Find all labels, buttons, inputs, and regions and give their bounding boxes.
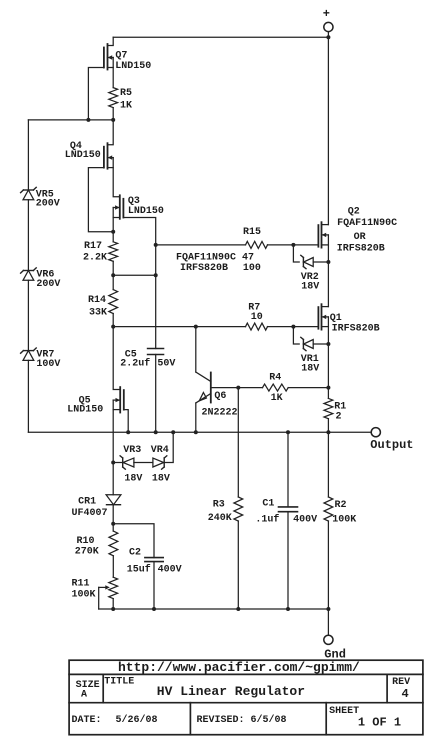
wire CR1 cathode [112, 505, 114, 524]
wire R7 to Q1 gate [268, 326, 319, 328]
wire Q2 drain [322, 224, 329, 226]
wire R7 left [113, 326, 245, 328]
svg-text:IRFS820B: IRFS820B [337, 244, 385, 255]
junction C1 bottom [286, 607, 290, 611]
wire Q7 drain [108, 37, 114, 45]
junction Q6 collector tap [194, 325, 198, 329]
svg-text:2: 2 [336, 411, 342, 422]
wire Q3 gate [123, 218, 155, 245]
wire C2 bottom [153, 562, 155, 609]
svg-text:REVISED: 6/5/08: REVISED: 6/5/08 [197, 714, 287, 726]
resistor R2 [324, 432, 356, 609]
wire Q1 drain [322, 306, 329, 308]
wire right rail to Q2 drain [327, 37, 329, 224]
wire VR4 right up to output rail [164, 432, 173, 462]
svg-text:4: 4 [402, 687, 409, 701]
zener diode VR4 [151, 445, 170, 485]
capacitor C1 [255, 499, 317, 526]
wire R4 right [288, 387, 328, 389]
wire VR5 to VR6 [27, 200, 29, 271]
junction VR3 anode node [111, 461, 115, 465]
svg-text:10: 10 [251, 312, 263, 323]
svg-text:UF4007: UF4007 [72, 508, 108, 519]
svg-text:VR3: VR3 [123, 445, 141, 456]
transistor Q3 [113, 195, 164, 219]
wire Q4 drain [108, 120, 114, 145]
wire left rail upper [27, 120, 29, 190]
capacitor C5 [120, 349, 175, 370]
zener diode VR5 [21, 187, 60, 209]
junction C2 bottom [152, 607, 156, 611]
svg-text:2N2222: 2N2222 [202, 408, 238, 419]
svg-text:1K: 1K [120, 101, 132, 112]
svg-text:R2: R2 [335, 500, 347, 511]
junction CR1 / R10 / C2 [111, 522, 115, 526]
wire Q6 base [211, 387, 239, 389]
svg-text:240K: 240K [208, 513, 232, 524]
junction C5 bottom [154, 430, 158, 434]
junction R14 bottom [111, 325, 115, 329]
svg-text:A: A [81, 689, 87, 700]
wire Q6 collector [195, 327, 197, 372]
svg-text:18V: 18V [152, 474, 170, 485]
junction R2 bottom [326, 607, 330, 611]
resistor R10 [75, 524, 118, 558]
junction R11 bottom [111, 607, 115, 611]
svg-text:Q7: Q7 [115, 51, 127, 62]
+ terminal [323, 7, 333, 31]
transistor Q5 [67, 387, 124, 416]
junction R5 bottom [111, 118, 115, 122]
junction Q6 emitter [194, 430, 198, 434]
svg-text:R3: R3 [213, 500, 225, 511]
junction R3 bottom [236, 607, 240, 611]
svg-text:SHEET: SHEET [329, 706, 359, 717]
wire Q4 gate [88, 168, 113, 232]
junction VR4 top [171, 430, 175, 434]
wire upper left horizontal [28, 119, 113, 121]
svg-text:CR1: CR1 [78, 496, 96, 507]
Gnd terminal [324, 635, 346, 661]
svg-text:R10: R10 [77, 536, 95, 547]
resistor R3 [208, 497, 243, 609]
svg-text:Q2: Q2 [348, 206, 360, 217]
junction VR1 anode [326, 342, 330, 346]
diode CR1 [72, 495, 121, 519]
wire + terminal to node [327, 32, 329, 38]
svg-text:IRFS820B: IRFS820B [180, 263, 228, 274]
svg-text:VR4: VR4 [151, 445, 169, 456]
resistor R7 [246, 303, 268, 331]
svg-text:R11: R11 [72, 579, 90, 590]
wire R10 to R11 [112, 556, 114, 577]
zener diode VR2 [293, 245, 328, 293]
svg-text:LND150: LND150 [67, 405, 103, 416]
svg-text:R17: R17 [84, 241, 102, 252]
wire to C2 top [113, 524, 154, 558]
junction C5 node [154, 273, 158, 277]
svg-text:100K: 100K [72, 590, 96, 601]
svg-text:2.2K: 2.2K [83, 252, 107, 263]
wire Q3 source [112, 208, 114, 232]
svg-text:OR: OR [354, 232, 366, 243]
svg-text:18V: 18V [301, 364, 319, 375]
Output terminal [370, 428, 413, 452]
svg-text:200V: 200V [36, 199, 60, 210]
wire C1 top [287, 432, 289, 507]
wire R17 bottom to C5 node [113, 274, 156, 276]
transistor Q6 [196, 372, 238, 419]
wire R4 left [238, 387, 262, 389]
svg-text:TITLE: TITLE [104, 677, 134, 688]
svg-text:C2: C2 [129, 548, 141, 559]
zener diode VR7 [21, 348, 61, 370]
svg-text:HV Linear Regulator: HV Linear Regulator [157, 684, 305, 699]
wire to Gnd terminal [327, 609, 329, 635]
wire R5 bottom [112, 108, 114, 120]
resistor R5 [109, 88, 132, 112]
svg-text:R14: R14 [88, 295, 106, 306]
wire Q1 source [327, 317, 329, 388]
svg-text:R4: R4 [269, 373, 281, 384]
svg-text:100K: 100K [332, 514, 356, 525]
svg-text:100: 100 [243, 263, 261, 274]
transistor Q7 [104, 44, 151, 72]
wire output rail [28, 431, 371, 433]
wire Q7 source to R5 [112, 58, 114, 88]
svg-text:18V: 18V [124, 474, 142, 485]
transistor Q1 [318, 304, 379, 334]
svg-text:200V: 200V [36, 279, 60, 290]
svg-text:Q6: Q6 [214, 391, 226, 402]
wire VR6 to VR7 [27, 280, 29, 350]
svg-text:1K: 1K [271, 393, 283, 404]
svg-text:Output: Output [370, 438, 413, 452]
junction R1 bottom / R2 top [326, 430, 330, 434]
zener diode VR6 [21, 268, 61, 290]
svg-text:SIZE: SIZE [76, 680, 100, 691]
wire R15 left [156, 244, 246, 246]
resistor R17 [83, 232, 118, 275]
svg-text:15uf: 15uf [127, 564, 151, 576]
svg-text:1 OF 1: 1 OF 1 [358, 715, 401, 729]
resistor R14 [88, 275, 118, 326]
wire R15 to Q2 gate [268, 244, 319, 246]
junction VR2 top [291, 243, 295, 247]
svg-text:.1uf: .1uf [255, 513, 279, 525]
svg-text:LND150: LND150 [128, 206, 164, 217]
title block frame [69, 660, 423, 735]
wire R3 column [237, 388, 239, 497]
svg-text:18V: 18V [301, 282, 319, 293]
svg-text:FQAF11N90C: FQAF11N90C [337, 218, 397, 229]
svg-text:LND150: LND150 [65, 150, 101, 161]
transistor Q2 [318, 206, 397, 254]
wire C5 bottom [155, 355, 157, 433]
wire Q5 source [112, 400, 114, 462]
wire Q4 source to Q3 drain [113, 158, 120, 197]
wire VR3 left [113, 462, 123, 464]
wire left rail lower [27, 360, 29, 432]
resistor R15 [243, 227, 268, 248]
svg-text:2.2uf: 2.2uf [120, 357, 150, 369]
wire Q5 drain [113, 327, 120, 390]
resistor R1 [324, 388, 346, 433]
zener diode VR1 [293, 327, 328, 375]
wire Q2 source [327, 235, 329, 307]
svg-text:R15: R15 [243, 227, 261, 238]
svg-text:R5: R5 [120, 88, 132, 99]
wire ground rail [99, 608, 329, 610]
junction C1 top [286, 430, 290, 434]
zener diode VR3 [120, 445, 142, 485]
junction Q5 gate on output rail [126, 430, 130, 434]
junction Q3 source / R17 top [111, 230, 115, 234]
junction R4 / R1 / Q1 source [326, 386, 330, 390]
resistor R4 [263, 373, 289, 404]
junction VR2 anode [326, 260, 330, 264]
svg-text:270K: 270K [75, 547, 99, 558]
wire Q7 gate [88, 68, 104, 120]
wire C1 bottom [287, 512, 289, 609]
svg-text:5/26/08: 5/26/08 [116, 714, 158, 726]
svg-text:LND150: LND150 [115, 61, 151, 72]
svg-text:+: + [323, 7, 330, 21]
junction VR1 top [291, 325, 295, 329]
junction Q3 gate / R15 wire [154, 243, 158, 247]
wire Q6 emitter [195, 403, 197, 432]
svg-text:FQAF11N90C 47: FQAF11N90C 47 [176, 252, 254, 263]
junction Q6 base / R4 node [236, 386, 240, 390]
wire top rail [113, 36, 328, 38]
svg-text:400V: 400V [158, 565, 182, 576]
svg-text:400V: 400V [293, 514, 317, 525]
wire C5 top [155, 245, 157, 349]
junction top right [326, 35, 330, 39]
svg-text:DATE:: DATE: [72, 715, 102, 726]
svg-text:C1: C1 [262, 499, 274, 510]
capacitor C2 [127, 548, 182, 576]
potentiometer R11 [72, 577, 118, 609]
transistor Q4 [65, 141, 114, 169]
wire VR3 to VR4 [134, 462, 153, 464]
wire CR1 anode [112, 463, 114, 495]
svg-text:http://www.pacifier.com/~gpimm: http://www.pacifier.com/~gpimm/ [118, 660, 360, 675]
svg-text:50V: 50V [157, 358, 175, 369]
svg-text:100V: 100V [36, 359, 60, 370]
svg-text:IRFS820B: IRFS820B [332, 323, 380, 334]
junction R17 bottom [111, 273, 115, 277]
svg-text:33K: 33K [89, 308, 107, 319]
wire Q5 gate [124, 410, 128, 433]
junction gate bus [86, 118, 90, 122]
